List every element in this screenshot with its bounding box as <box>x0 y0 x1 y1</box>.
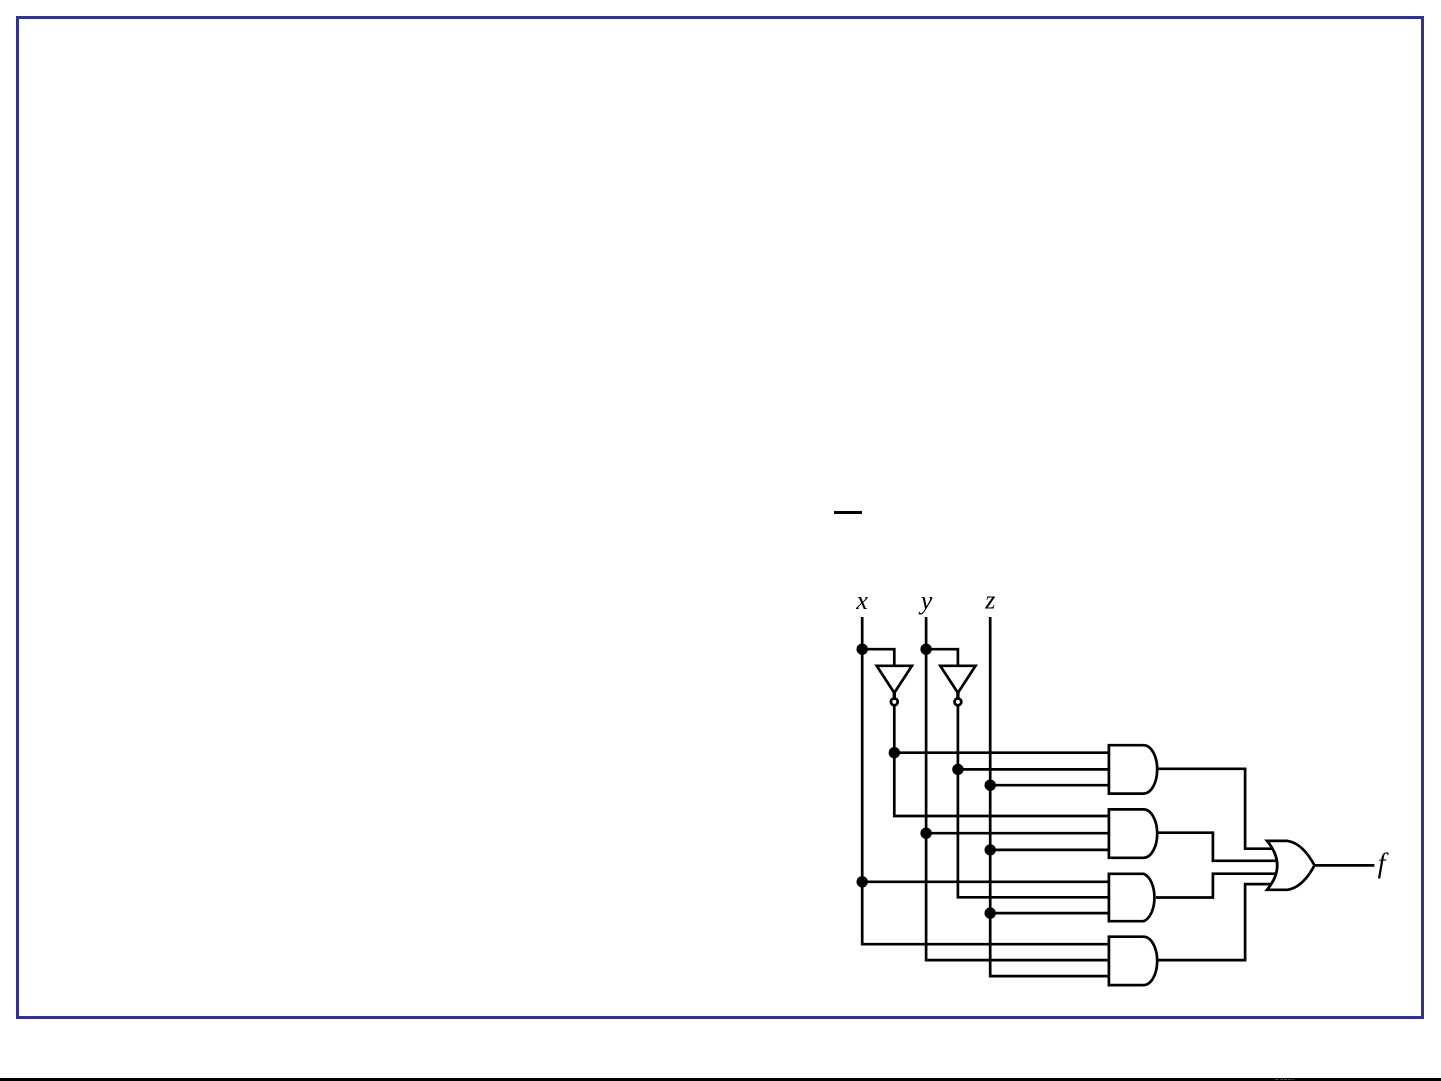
junction x/AND3 <box>857 876 868 887</box>
wire: z branch to AND3 input 3 <box>990 912 1110 915</box>
wire: ybar branch to AND1 input 2 <box>958 768 1111 771</box>
wire: x tap to inverter U1 input <box>862 649 894 666</box>
OR gate G5 <box>1267 841 1315 890</box>
junction ybar/AND1 <box>952 764 963 775</box>
junction y/AND2 <box>920 828 931 839</box>
wire: xbar rail from U1 output, dot branch, elbow to AND2 input 1 <box>894 705 1110 816</box>
wire: input rail z (vertical) with elbow to AND4 input 3 <box>990 617 1110 976</box>
AND gate G3 <box>1109 874 1155 921</box>
inverter U2 (NOT y) <box>940 666 975 706</box>
wire: y tap to inverter U2 input <box>926 649 958 666</box>
junction y/U2 tap <box>920 644 931 655</box>
wire: x branch to AND3 input 1 <box>862 880 1110 883</box>
junction x/U1 tap <box>857 644 868 655</box>
wire: AND3 output to OR input 3 <box>1156 874 1278 898</box>
junction z/AND2 <box>985 844 996 855</box>
svg-text:x: x <box>855 586 868 615</box>
junction xbar/AND1 <box>889 747 900 758</box>
wire: input rail y (vertical) with elbow to AND4 input 2 <box>926 617 1110 960</box>
wire: OR output to f <box>1315 864 1375 867</box>
wire: AND1 output to OR input 1 <box>1156 769 1274 849</box>
AND gate G2 <box>1109 809 1157 857</box>
wire: xbar branch to AND1 input 1 <box>894 751 1110 754</box>
wire: input rail x (vertical) with elbow to AND4 input 1 <box>862 617 1110 944</box>
svg-text:y: y <box>918 586 933 615</box>
wire: AND2 output to OR input 2 <box>1156 833 1278 861</box>
wire: AND4 output to OR input 4 <box>1156 884 1274 960</box>
svg-text:f: f <box>1378 849 1389 880</box>
AND gate G4 <box>1109 937 1157 985</box>
wire: z branch to AND1 input 3 <box>990 784 1110 787</box>
junction z/AND1 <box>985 780 996 791</box>
overbar mark <box>834 511 862 514</box>
junction z/AND3 <box>985 907 996 918</box>
wire: y branch to AND2 input 2 <box>926 832 1110 835</box>
wire: z branch to AND2 input 3 <box>990 849 1110 852</box>
svg-text:z: z <box>984 586 995 615</box>
inverter U1 (NOT x) <box>877 666 912 706</box>
AND gate G1 <box>1109 745 1157 793</box>
wire: ybar rail from U2 output, elbow to AND3 input 2 <box>958 705 1111 898</box>
